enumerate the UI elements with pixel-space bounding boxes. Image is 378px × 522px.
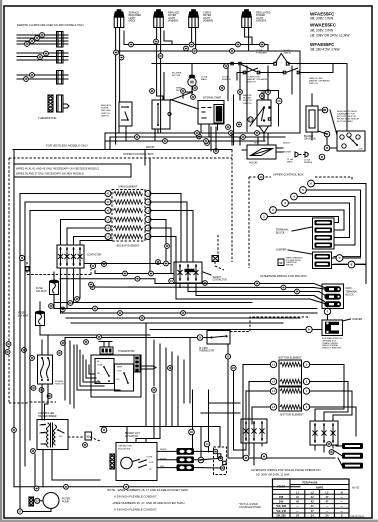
wire numbers near timer bbox=[191, 95, 242, 146]
fan wires from bars to contactor bbox=[333, 446, 342, 466]
contactor CR4 contact bbox=[332, 424, 334, 443]
svg-text:*1Ø, 208: *1Ø, 208 bbox=[276, 504, 287, 508]
main terminal bar L2 bbox=[325, 294, 342, 300]
wire group 2 (3 wires through ferrite clamp) bbox=[17, 53, 68, 60]
lamp: check fryer light (amber) bbox=[191, 9, 196, 11]
svg-text:COM: COM bbox=[358, 149, 363, 151]
svg-text:SWITCH: SWITCH bbox=[247, 82, 256, 84]
vacuum switch (output) bbox=[152, 100, 170, 129]
dashed box right of actuator bbox=[214, 447, 227, 475]
node left of CR0 bbox=[19, 255, 24, 260]
wire: horizontal at y72.5 bbox=[237, 64, 333, 80]
svg-text:208V: 208V bbox=[39, 433, 44, 435]
wire numbers left of power switch bbox=[61, 335, 102, 346]
svg-text:WHITE: WHITE bbox=[160, 449, 167, 451]
svg-text:BACKUP ELEMENT: BACKUP ELEMENT bbox=[117, 245, 140, 248]
wire numbers near fuses bbox=[49, 282, 94, 312]
svg-text:FORWARD: FORWARD bbox=[256, 52, 268, 55]
backup switch wiring bbox=[250, 91, 279, 142]
actuator terminal bar 1 bbox=[177, 448, 195, 455]
contactor CR3 contact bbox=[253, 422, 255, 441]
dashed control wires left bbox=[27, 262, 91, 275]
horizontal bus wires y133-141 bbox=[105, 133, 300, 141]
actuator switches bbox=[132, 460, 146, 468]
bottom element box 2 bbox=[279, 387, 302, 411]
bottom element 2 resistor row (node L1-1) bbox=[280, 389, 301, 393]
node 3 (cascade) bbox=[282, 200, 289, 207]
svg-text:(RED): (RED) bbox=[129, 20, 136, 23]
svg-text:15A MAX: 15A MAX bbox=[36, 290, 47, 293]
buzzer terminal wire numbers bbox=[322, 107, 330, 151]
jumper block (main) bbox=[322, 320, 343, 336]
wire numbers on group 2 bbox=[38, 51, 49, 59]
fan wires into main terminal block bbox=[310, 284, 325, 304]
safety contactor CR2 bbox=[174, 262, 202, 283]
vertical feeds to actuator bars bbox=[193, 390, 209, 457]
svg-text:3Ø, 208V, 17kW: 3Ø, 208V, 17kW bbox=[310, 29, 333, 33]
svg-text:WIRES 36 AND 37 ONLY NECESSARY: WIRES 36 AND 37 ONLY NECESSARY ON 380V M… bbox=[16, 172, 84, 176]
svg-text:60 HZ: 60 HZ bbox=[352, 486, 359, 490]
svg-text:(GREEN): (GREEN) bbox=[256, 20, 266, 23]
heating element resistor row 6 bbox=[114, 234, 143, 238]
bottom horizontal wires bbox=[14, 480, 300, 487]
svg-text:MALE: MALE bbox=[201, 78, 207, 81]
switch: safe filter basket operated switch bbox=[286, 68, 298, 72]
svg-text:(AMBER): (AMBER) bbox=[203, 20, 213, 23]
power switch S1 bbox=[95, 359, 114, 384]
node 37 bbox=[17, 509, 22, 514]
node 8 (main) bbox=[306, 326, 312, 332]
main terminal block bbox=[322, 284, 344, 309]
svg-text:TEMP: TEMP bbox=[117, 367, 123, 369]
wires from buses down-left bbox=[105, 126, 126, 150]
svg-text:—: — bbox=[340, 496, 343, 499]
node L3 (left of row 6) bbox=[105, 234, 111, 240]
svg-text:SHOWN: SHOWN bbox=[286, 264, 294, 266]
buzzer BZ1 bbox=[306, 106, 318, 132]
thermistor symbol (top left) bbox=[48, 95, 53, 112]
model ratings text block bbox=[310, 11, 350, 51]
junction box 52 near transformer bbox=[85, 432, 92, 440]
wire number 33 right of cluster bbox=[152, 366, 173, 393]
wire numbers lower bundle bbox=[93, 306, 186, 320]
node 8 (upper) bbox=[348, 261, 355, 268]
node 12 bbox=[35, 498, 40, 503]
node 2 (right of row 5) bbox=[145, 225, 151, 231]
svg-text:REPLACE: REPLACE bbox=[101, 104, 112, 107]
replace filter vacuum switch bbox=[119, 102, 132, 126]
main terminal bar L3 bbox=[325, 301, 342, 307]
svg-text:CAM MOTORS: CAM MOTORS bbox=[118, 445, 132, 448]
svg-text:—: — bbox=[326, 505, 329, 508]
wire numbers on y133-141 buses bbox=[135, 131, 260, 154]
transformer dashed wires bbox=[30, 402, 100, 441]
blower motor M1 bbox=[188, 78, 196, 86]
wire numbers bottom bbox=[34, 484, 128, 491]
contactor CR3 contact bbox=[261, 422, 263, 441]
wire color labels near hood bbox=[254, 142, 294, 164]
svg-text:SAFETY: SAFETY bbox=[213, 276, 222, 279]
wires right of actuator verticals bbox=[201, 403, 240, 413]
wire group 1 (4 wires through ferrite clamp) bbox=[17, 35, 68, 44]
svg-text:NO: NO bbox=[97, 373, 101, 375]
contactor CR4 contact bbox=[314, 424, 316, 443]
connector D (16 GA female) bbox=[305, 152, 308, 157]
interval timer bottom pins bbox=[201, 124, 218, 137]
svg-text:MAIN ELEMENT: MAIN ELEMENT bbox=[119, 186, 138, 189]
node 1 (right of row 4) bbox=[145, 217, 151, 223]
svg-text:WIRES 40,41,42, AND 43 ONLY NE: WIRES 40,41,42, AND 43 ONLY NECESSARY ON… bbox=[16, 167, 99, 171]
svg-text:WIRING IS REMOVED: WIRING IS REMOVED bbox=[322, 348, 342, 350]
contactor CR0 contact bbox=[73, 248, 75, 266]
bottom element resistor row (node L2-2) bbox=[280, 379, 301, 383]
node 41 (left of row 1) bbox=[105, 191, 111, 197]
wire group 3 (2 wires through ferrite clamp) bbox=[17, 75, 68, 79]
svg-text:FEMALE: FEMALE bbox=[222, 78, 231, 81]
svg-text:PER PHASE: PER PHASE bbox=[303, 480, 318, 484]
transformer connection wires bbox=[14, 150, 52, 509]
contactor CR0 drop wires bbox=[61, 268, 81, 313]
pump bottom wire bbox=[23, 509, 52, 512]
svg-text:UPPER CONTROL BOX: UPPER CONTROL BOX bbox=[273, 173, 304, 177]
node 2 (right of row 2) bbox=[145, 199, 151, 205]
junction box small bbox=[25, 266, 30, 271]
node 20 bbox=[276, 98, 282, 104]
ferrite clamp F1 bbox=[57, 32, 64, 48]
temperature probe bbox=[134, 355, 140, 372]
svg-text:(LATCH): (LATCH) bbox=[243, 102, 252, 105]
actuator terminal bar 2 bbox=[177, 456, 195, 463]
fuse F2 15A bbox=[35, 311, 45, 315]
wire numbers on 380V bundle bbox=[90, 261, 299, 294]
bottom element left wires bbox=[243, 365, 270, 459]
svg-text:ALTERNATE WIRING FOR SINGLE PH: ALTERNATE WIRING FOR SINGLE PHASE OPERAT… bbox=[251, 468, 320, 472]
safety contactor drop wires bbox=[180, 283, 196, 296]
wire: long horizontal at y63.5 bbox=[152, 64, 347, 132]
power switch outer box bbox=[91, 355, 141, 397]
svg-text:—: — bbox=[340, 505, 343, 508]
terminal bar 1 bbox=[315, 220, 333, 225]
node L2 (left of row 5) bbox=[105, 225, 111, 231]
svg-text:WFAE55FC: WFAE55FC bbox=[310, 42, 335, 47]
single phase amperage table bbox=[273, 479, 350, 518]
bottom element box 1 bbox=[279, 360, 302, 386]
ventless wires note box bbox=[14, 164, 131, 177]
actuator coil bbox=[110, 454, 115, 469]
svg-text:CONTACTOR: CONTACTOR bbox=[87, 254, 102, 257]
svg-text:COM: COM bbox=[97, 365, 102, 367]
svg-text:BLACK: BLACK bbox=[283, 142, 290, 145]
contactor CR0 bbox=[57, 245, 84, 268]
svg-text:COM: COM bbox=[149, 462, 154, 464]
heating element resistor row 2 bbox=[114, 200, 143, 204]
node 7 (upper) bbox=[336, 255, 343, 262]
svg-text:BLOCK: BLOCK bbox=[346, 294, 355, 297]
node 3 (right of row 6) bbox=[145, 234, 151, 240]
wire numbers left margin bbox=[5, 342, 16, 433]
hood damper box bbox=[247, 145, 276, 159]
bottom element 2 resistor row (node L3-3) bbox=[280, 405, 301, 409]
terminal block (upper) bbox=[313, 218, 335, 249]
top bus wire B bbox=[116, 50, 300, 52]
hi-limit wires bbox=[65, 337, 212, 339]
svg-text:240V: 240V bbox=[39, 425, 44, 427]
terminal bar 3 bbox=[315, 235, 333, 240]
svg-text:AMPS: AMPS bbox=[316, 486, 324, 490]
contactor interconnect wires bbox=[228, 420, 335, 465]
svg-text:SWITCH: SWITCH bbox=[55, 384, 64, 386]
main terminal bar L1 bbox=[325, 286, 342, 292]
switch: computer basket operated switch bbox=[246, 68, 258, 72]
svg-text:INTERVAL TIMER: INTERVAL TIMER bbox=[203, 96, 222, 99]
wires to relay and buzzer bbox=[211, 66, 337, 151]
fuse connection wires bbox=[40, 272, 54, 335]
svg-text:240: 240 bbox=[279, 500, 284, 504]
svg-text:—: — bbox=[296, 505, 299, 508]
wire numbers mid cluster bbox=[150, 64, 271, 99]
wire number 40 at hood bbox=[319, 154, 325, 160]
power switch S0 bbox=[38, 355, 53, 384]
contactor CR0 contact bbox=[60, 248, 62, 266]
node 25 and 26 bbox=[225, 354, 236, 371]
node 43 (left of row 3) bbox=[105, 208, 111, 214]
center long vertical wires bbox=[136, 323, 190, 439]
svg-text:UPPER CONTROL BOX: UPPER CONTROL BOX bbox=[123, 152, 154, 156]
diagonal wires bars to connectors bbox=[197, 451, 220, 468]
wire numbers near transformer bbox=[31, 427, 107, 453]
wire numbers near contactors bbox=[102, 244, 208, 286]
svg-text:—: — bbox=[340, 510, 343, 513]
safety contactor coil bar bbox=[185, 269, 195, 272]
terminal bar 2 bbox=[315, 228, 333, 233]
fuse F1 15A bbox=[49, 280, 59, 284]
svg-text:NOTE: -WIRE NUMBERS 16, 17 AND: NOTE: -WIRE NUMBERS 16, 17 AND 18 ARE RO… bbox=[107, 488, 188, 492]
power switch vertical wires bbox=[42, 335, 48, 420]
svg-text:MOTOR: MOTOR bbox=[172, 75, 181, 77]
heating element resistor row 4 bbox=[114, 217, 143, 221]
svg-text:24V: 24V bbox=[59, 436, 63, 438]
svg-text:CONTACTOR: CONTACTOR bbox=[213, 279, 228, 282]
filter pump coil bbox=[29, 497, 34, 506]
node 4 (cascade) bbox=[291, 193, 298, 200]
wire x228 down from hi-limit bbox=[228, 344, 234, 426]
svg-text:3Ø, 208V, 17kW: 3Ø, 208V, 17kW bbox=[310, 17, 333, 21]
node 21 bbox=[248, 117, 253, 122]
wire numbers on top buses bbox=[114, 39, 265, 60]
node 36 on vertical bbox=[189, 429, 195, 435]
svg-text:WFAE55FC: WFAE55FC bbox=[310, 11, 335, 16]
diagonal switch to timer bbox=[171, 100, 199, 110]
svg-text:(24V/50HZ): (24V/50HZ) bbox=[304, 139, 316, 141]
svg-text:MALE: MALE bbox=[287, 160, 293, 163]
svg-text:ALTERNATE WIRING FOR 380-415V: ALTERNATE WIRING FOR 380-415V bbox=[260, 274, 307, 278]
terminal bar 4 bbox=[315, 243, 333, 248]
svg-text:JUMPER: JUMPER bbox=[352, 318, 362, 321]
svg-text:THERMISTOR: THERMISTOR bbox=[38, 116, 56, 120]
svg-text:WWAE55FC: WWAE55FC bbox=[310, 22, 337, 27]
wire drops center cluster bbox=[155, 51, 300, 145]
wires jumper to nodes 7,8 bbox=[332, 258, 366, 284]
node 15 bbox=[198, 457, 204, 463]
safety contactor contact bbox=[179, 265, 181, 281]
node 1 (right of row 1) bbox=[145, 191, 151, 197]
node 1 (cascade) bbox=[261, 213, 268, 220]
svg-text:FOR VENTLESS MODELS ONLY: FOR VENTLESS MODELS ONLY bbox=[46, 143, 88, 147]
lower wire bundle bbox=[40, 309, 317, 336]
bottom terminal bar 3 bbox=[342, 463, 363, 469]
svg-text:VOLTS: VOLTS bbox=[277, 486, 285, 489]
heating element resistor row 3 bbox=[114, 208, 143, 212]
cascade wires 1-6 to terminal block bbox=[267, 184, 366, 265]
thermistor plug J2 bbox=[100, 347, 113, 354]
node 14 bbox=[204, 441, 210, 447]
lamp: service required light (red) bbox=[117, 9, 122, 11]
lamp: regulated power light (green) bbox=[244, 9, 249, 11]
bottom terminal bar 1 bbox=[342, 443, 363, 449]
svg-text:SAFE FILTER: SAFE FILTER bbox=[309, 77, 323, 80]
node 7 (main) bbox=[324, 308, 330, 314]
wires from lamps down bbox=[116, 28, 252, 145]
heating element resistor row 5 bbox=[114, 226, 143, 230]
relay K1 bbox=[337, 131, 365, 151]
svg-text:BASKET OPERATED: BASKET OPERATED bbox=[309, 80, 330, 83]
svg-text:SWITCH: SWITCH bbox=[309, 83, 318, 85]
single phase contactor CR4 bbox=[310, 421, 338, 445]
contactor CR0 contact bbox=[66, 248, 68, 266]
ferrite clamp F2 bbox=[57, 51, 64, 64]
bottom element resistor row (node L1-1) bbox=[280, 362, 301, 366]
svg-text:A 3/8 INCH FLEXIBLE CONDUIT.: A 3/8 INCH FLEXIBLE CONDUIT. bbox=[114, 495, 157, 499]
wire: vertical x150 hood to bundle bbox=[145, 150, 150, 274]
connector circles in dashed box bbox=[213, 449, 226, 470]
svg-text:1Ø, 208V OR 240V, 11.3kW: 1Ø, 208V OR 240V, 11.3kW bbox=[310, 33, 350, 37]
hood boundary rule bbox=[13, 149, 232, 151]
actuator wires to bars bbox=[157, 451, 202, 467]
dashed box: upper control box left bbox=[9, 150, 232, 403]
safety contactor contact bbox=[195, 265, 197, 281]
heat contactor CR3 bbox=[241, 419, 267, 443]
wire numbers on group 3 bbox=[24, 73, 35, 82]
svg-text:A 3/8 INCH FLEXIBLE CONDUIT.: A 3/8 INCH FLEXIBLE CONDUIT. bbox=[114, 508, 157, 512]
svg-text:BOTTOM PANEL: BOTTOM PANEL bbox=[337, 120, 354, 123]
dashed wire from X box bbox=[215, 262, 224, 271]
node 2 (cascade) bbox=[270, 207, 277, 214]
power switch left loop wires bbox=[65, 338, 120, 409]
svg-text:N: N bbox=[341, 491, 343, 494]
diagonal wire blower to switch bbox=[171, 93, 191, 101]
dashed wire hi-limit to jumper bbox=[230, 317, 310, 332]
lamp: replace filter light (amber) bbox=[156, 9, 161, 11]
svg-text:52: 52 bbox=[86, 435, 90, 439]
heating element resistor row 1 bbox=[114, 191, 143, 195]
controller transformer T1 bbox=[37, 420, 68, 450]
svg-text:HOOD: HOOD bbox=[249, 161, 257, 165]
connector D (hood) bbox=[295, 152, 298, 157]
node 24 bbox=[169, 278, 174, 283]
main element left loop wiring bbox=[20, 194, 112, 441]
basket lift actuator box bbox=[116, 443, 157, 481]
jumper block (upper) bbox=[313, 252, 332, 269]
wires into hood box bbox=[232, 133, 283, 152]
thermistor plug stubs bbox=[99, 342, 112, 348]
svg-text:—: — bbox=[296, 510, 299, 513]
dashed box: upper control box right bbox=[249, 177, 352, 268]
node L1 (left of row 4) bbox=[105, 217, 111, 223]
wire numbers at contactor CR4 bbox=[243, 442, 334, 461]
junction squares on y63.5 bus bbox=[231, 62, 234, 65]
svg-text:3Ø, 380-415V, 17kW: 3Ø, 380-415V, 17kW bbox=[310, 47, 339, 51]
actuator motor M2 bbox=[121, 457, 133, 469]
svg-text:(AMBER): (AMBER) bbox=[168, 20, 178, 23]
svg-text:ON SINGLE PHASE: ON SINGLE PHASE bbox=[239, 506, 261, 509]
node 3 (right of row 3) bbox=[145, 208, 151, 214]
svg-text:HI LIMIT: HI LIMIT bbox=[199, 348, 208, 350]
contactor CR0 contact bbox=[79, 248, 81, 266]
svg-text:BASKET OPERATED: BASKET OPERATED bbox=[247, 78, 268, 81]
svg-text:3Ø, 380: 3Ø, 380 bbox=[276, 514, 286, 518]
svg-text:BOTTOM ELEMENT: BOTTOM ELEMENT bbox=[278, 357, 302, 360]
voltage change note box 52 bbox=[278, 259, 284, 266]
contactor CR4 contact bbox=[323, 424, 325, 443]
wire bundle to main terminal block bbox=[55, 264, 319, 303]
svg-text:BROWN: BROWN bbox=[283, 152, 291, 154]
svg-text:INDICATORS: INDICATORS bbox=[118, 448, 131, 451]
svg-text:THERMOSTAT: THERMOSTAT bbox=[199, 350, 215, 353]
svg-text:(MALE): (MALE) bbox=[284, 52, 292, 55]
top bus wire A bbox=[124, 45, 268, 52]
diagonal wire bus to switch row bbox=[242, 65, 257, 72]
svg-text:(INPUT): (INPUT) bbox=[101, 115, 109, 117]
main element resistor box bbox=[112, 190, 145, 242]
node 42 (left of row 2) bbox=[105, 199, 111, 205]
junction box with X near safety contactor bbox=[212, 256, 219, 262]
node 5 (cascade) bbox=[300, 187, 307, 194]
svg-text:COM: COM bbox=[117, 371, 122, 373]
svg-text:BOTTOM ELEMENT: BOTTOM ELEMENT bbox=[280, 414, 304, 417]
power switch wire numbers bbox=[22, 348, 62, 399]
svg-text:208: 208 bbox=[279, 495, 284, 499]
safety contactor contact bbox=[187, 265, 189, 281]
temp switch S2 bbox=[115, 364, 134, 391]
filter pump motor bbox=[43, 493, 59, 509]
svg-text:VACUUM: VACUUM bbox=[101, 109, 110, 112]
svg-text:THERMISTOR: THERMISTOR bbox=[118, 350, 135, 353]
contactor CR3 contact bbox=[245, 422, 247, 441]
svg-text:1Ø, 208V OR 240V, 11.3kW: 1Ø, 208V OR 240V, 11.3kW bbox=[256, 473, 290, 477]
main element right wiring to contactors bbox=[151, 194, 193, 300]
svg-text:TRANSFORMER: TRANSFORMER bbox=[38, 415, 57, 418]
svg-text:NO: NO bbox=[117, 379, 121, 381]
svg-text:FEMALE: FEMALE bbox=[304, 161, 313, 164]
svg-text:DOWN: DOWN bbox=[147, 457, 153, 459]
wire numbers on group 1 bbox=[25, 33, 45, 47]
svg-text:24623026-D: 24623026-D bbox=[350, 515, 364, 519]
node 30 bbox=[197, 335, 203, 341]
actuator terminal bar 3 bbox=[177, 464, 195, 471]
svg-text:M: M bbox=[190, 80, 194, 85]
svg-text:BLOCK: BLOCK bbox=[276, 231, 285, 234]
svg-text:—: — bbox=[326, 510, 329, 513]
bottom terminal bar 2 bbox=[342, 453, 363, 459]
wire number 40 bbox=[258, 174, 264, 180]
svg-text:HOOD: HOOD bbox=[146, 145, 154, 149]
svg-text:JUMPER: JUMPER bbox=[276, 249, 286, 252]
svg-text:PUMP: PUMP bbox=[62, 500, 69, 503]
wire split peak (10 GA) bbox=[276, 54, 288, 63]
node 6 (cascade) bbox=[308, 180, 315, 187]
bottom element right wires bbox=[310, 365, 356, 437]
svg-text:-WIRE NUMBERS 26, 27, AND 28 A: -WIRE NUMBERS 26, 27, AND 28 ARE ROUTED … bbox=[112, 501, 185, 505]
